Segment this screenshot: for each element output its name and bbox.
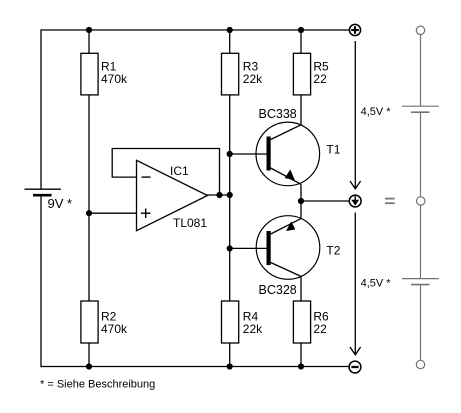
svg-text:22: 22 (313, 322, 327, 336)
op-amp plus input sign (141, 208, 151, 218)
junction dot feedback tap (216, 192, 222, 198)
wire column R1/R2 (x=89) (88, 30, 90, 53)
battery cell lower plates (402, 279, 439, 285)
terminal output (tap) (349, 195, 361, 207)
transistor Q1 (T1 BC338) (256, 122, 320, 186)
terminal plus (+) (349, 24, 360, 35)
junction dot top rail / R3 (227, 27, 233, 33)
svg-text:470k: 470k (101, 322, 128, 336)
wire T1 base (230, 153, 267, 155)
svg-text:BC338: BC338 (259, 107, 297, 121)
svg-text:4,5V *: 4,5V * (361, 106, 392, 118)
wire R4 bottom to rail (229, 343, 231, 367)
resistor R3 (222, 53, 239, 95)
junction dot bottom rail / R6 (298, 363, 304, 369)
svg-text:470k: 470k (101, 72, 128, 86)
wire T1 emitter / T2 emitter (output column) (300, 184, 302, 218)
node terminal bottom (gray circle) (416, 360, 424, 368)
wire left rail lower (battery minus plate to bottom rail) (40, 195, 42, 367)
resistor R4 (222, 301, 239, 343)
wire op-amp output (206, 194, 230, 196)
wire gray middle lower (420, 205, 422, 278)
junction dot output node (298, 198, 304, 204)
wire top supply rail (41, 29, 350, 31)
battery B1 9V plates (25, 189, 62, 195)
wire gray middle upper (420, 112, 422, 197)
wire R1 bottom to R2 top (88, 95, 90, 301)
battery cell upper plates (402, 106, 439, 112)
wire R2 bottom to rail (88, 343, 90, 367)
node terminal middle (gray circle) (417, 197, 425, 205)
svg-text:TL081: TL081 (173, 216, 207, 230)
resistor R5 (293, 53, 310, 95)
resistor R1 (81, 53, 98, 95)
resistor R2 (81, 301, 98, 343)
op-amp minus input sign (142, 176, 151, 178)
wire feedback loop (112, 149, 219, 196)
junction dot bottom rail / R4 (227, 363, 233, 369)
arrow 4,5V upper (350, 41, 361, 189)
svg-text:* = Siehe Beschreibung: * = Siehe Beschreibung (40, 378, 155, 390)
wire left rail upper (to battery plus plate) (40, 29, 42, 188)
op-amp U1 triangle (137, 160, 208, 230)
junction dot top rail / R1 (86, 27, 92, 33)
svg-text:BC328: BC328 (259, 283, 297, 297)
svg-text:4,5V *: 4,5V * (361, 278, 392, 290)
wire column R3/R4 top (x=229.7) (229, 30, 231, 53)
svg-text:22: 22 (313, 72, 327, 86)
resistor R6 (293, 301, 310, 343)
wire T2 collector to R6 (300, 276, 302, 301)
svg-text:22k: 22k (243, 72, 263, 86)
svg-text:T2: T2 (326, 244, 340, 258)
junction dot op-amp output / column (227, 192, 233, 198)
svg-text:9V *: 9V * (48, 196, 73, 211)
arrow 4,5V lower (350, 213, 361, 355)
junction dot top rail / R5 (298, 27, 304, 33)
transistor Q2 (T2 BC328) (256, 216, 320, 280)
wire bottom rail (41, 366, 349, 368)
wire output node to output terminal (301, 200, 349, 202)
svg-text:22k: 22k (243, 322, 263, 336)
wire column R5/R6 top (x=301) (300, 30, 302, 53)
wire gray top (420, 35, 422, 107)
terminal minus (-) (349, 361, 361, 373)
svg-text:T1: T1 (326, 143, 340, 157)
wire R5 bottom to T1 collector (300, 95, 302, 125)
wire T2 base (230, 247, 267, 249)
junction dot bottom rail / R2 (86, 363, 92, 369)
junction dot T2 base tap (227, 245, 233, 251)
wire op-amp + input (89, 212, 137, 214)
wire gray bottom (420, 285, 422, 361)
junction dot T1 base tap (227, 151, 233, 157)
junction dot op-amp + input (86, 210, 92, 216)
svg-text:IC1: IC1 (170, 164, 189, 178)
equals sign (equivalence) (385, 199, 395, 204)
wire R6 bottom to rail (300, 343, 302, 367)
wire R3 bottom to R4 top (229, 95, 231, 301)
node terminal top (gray circle) (416, 26, 424, 34)
